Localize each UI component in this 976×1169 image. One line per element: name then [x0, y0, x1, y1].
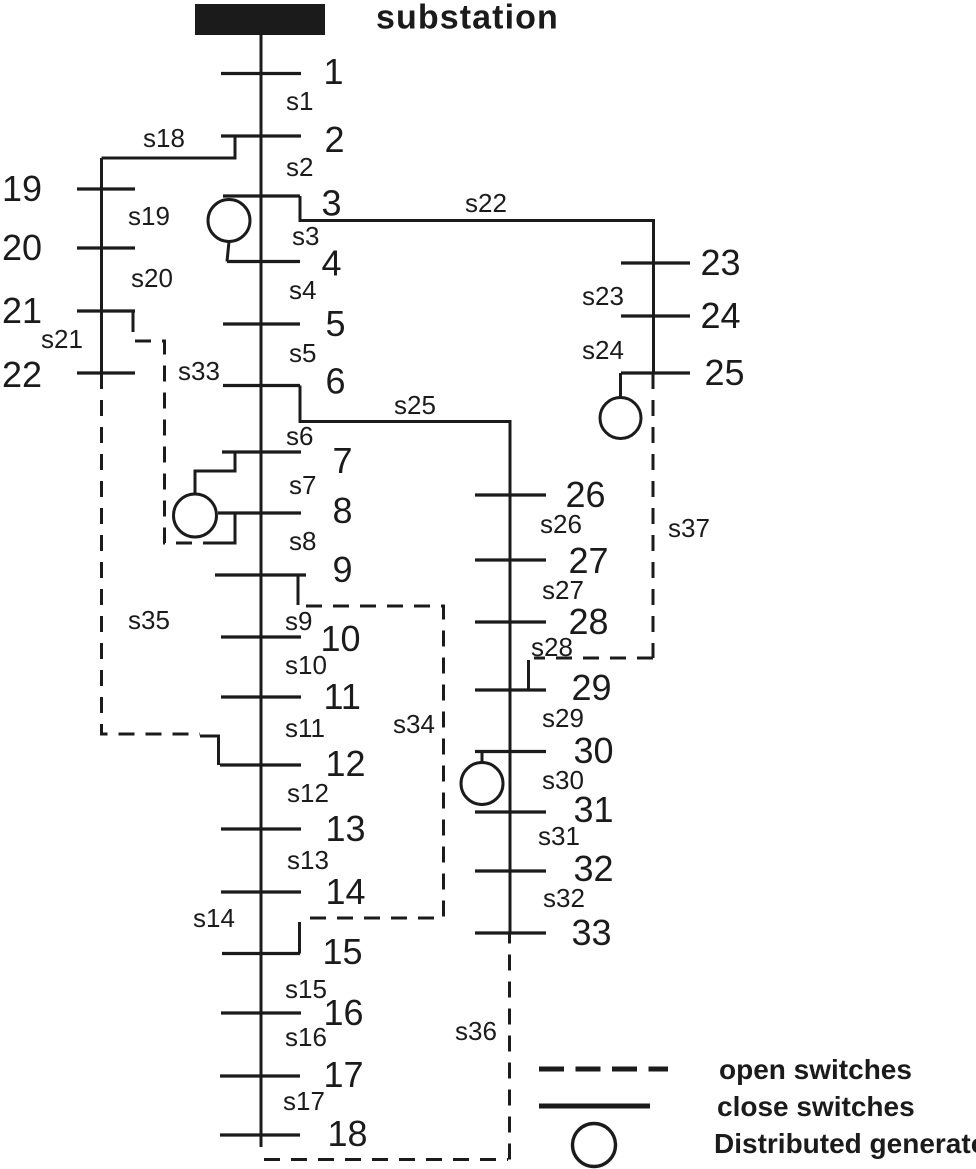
svg-text:s5: s5 [289, 338, 316, 368]
svg-text:11: 11 [324, 676, 361, 717]
svg-text:s24: s24 [582, 335, 624, 365]
svg-text:23: 23 [701, 242, 741, 283]
svg-text:Distributed generator: Distributed generator [714, 1128, 976, 1159]
node bus 12 [220, 763, 301, 766]
node bus 13 [221, 827, 301, 830]
svg-text:7: 7 [333, 440, 353, 481]
node bus 24 [621, 314, 690, 317]
svg-text:9: 9 [333, 549, 353, 590]
svg-text:s17: s17 [283, 1086, 325, 1116]
svg-text:5: 5 [326, 303, 346, 344]
node bus 30 [475, 750, 546, 753]
svg-text:s9: s9 [285, 606, 312, 636]
node bus 6 [223, 384, 300, 387]
svg-text:14: 14 [326, 871, 366, 912]
svg-text:24: 24 [701, 295, 741, 336]
open tie switch s36 (bus 18 to bus 33), dashed [264, 1158, 508, 1161]
node bus 25 [621, 371, 690, 374]
svg-text:4: 4 [322, 243, 342, 284]
node bus 22 [77, 371, 135, 374]
svg-text:s1: s1 [286, 86, 313, 116]
node bus 23 [621, 261, 690, 264]
node bus 29 [475, 688, 546, 691]
node bus 15 [222, 952, 300, 955]
svg-text:close switches: close switches [717, 1091, 915, 1122]
svg-text:s23: s23 [582, 281, 624, 311]
node bus 8 [218, 511, 301, 514]
svg-text:s10: s10 [285, 650, 327, 680]
svg-text:28: 28 [569, 601, 609, 642]
svg-text:29: 29 [572, 667, 612, 708]
svg-text:s36: s36 [455, 1016, 497, 1046]
svg-text:s35: s35 [128, 605, 170, 635]
svg-text:s27: s27 [542, 575, 584, 605]
svg-text:s13: s13 [287, 845, 329, 875]
distributed generator DG3 (at bus 25) [619, 373, 622, 398]
node bus 27 [475, 558, 546, 561]
distributed generator DG2 (at bus 7/8) [195, 452, 235, 494]
node bus 21 [77, 309, 135, 312]
node bus 28 [475, 620, 546, 623]
svg-text:19: 19 [2, 168, 42, 209]
svg-text:s19: s19 [128, 201, 170, 231]
svg-text:s14: s14 [193, 903, 235, 933]
node bus 19 [77, 187, 135, 190]
svg-text:s26: s26 [540, 509, 582, 539]
svg-text:15: 15 [323, 931, 363, 972]
node bus 1 [221, 72, 301, 75]
node bus 14 [221, 890, 301, 893]
node bus 32 [475, 869, 546, 872]
svg-text:s32: s32 [543, 883, 585, 913]
node bus 5 [223, 322, 300, 325]
node bus 17 [220, 1074, 300, 1077]
svg-text:s4: s4 [289, 275, 316, 305]
svg-text:s31: s31 [538, 821, 580, 851]
wire: main feeder vertical [260, 35, 263, 1147]
svg-text:8: 8 [333, 490, 353, 531]
svg-text:17: 17 [324, 1054, 364, 1095]
svg-text:s30: s30 [542, 765, 584, 795]
svg-text:25: 25 [705, 352, 745, 393]
node bus 26 [475, 493, 546, 496]
svg-text:s22: s22 [465, 188, 507, 218]
svg-text:22: 22 [2, 354, 42, 395]
svg-text:s15: s15 [285, 974, 327, 1004]
svg-text:s11: s11 [285, 713, 325, 743]
node bus 20 [77, 246, 135, 249]
legend: close switches sample line [539, 1104, 650, 1109]
node bus 16 [221, 1011, 301, 1014]
open tie switch s34 (bus 9 to bus 15), dashed [297, 575, 300, 605]
svg-text:18: 18 [328, 1113, 368, 1154]
svg-text:s33: s33 [178, 356, 220, 386]
svg-text:s37: s37 [668, 513, 710, 543]
node bus 3 [223, 194, 300, 197]
svg-text:16: 16 [324, 992, 364, 1033]
node bus 18 [220, 1133, 300, 1136]
svg-text:21: 21 [2, 290, 42, 331]
svg-text:s2: s2 [286, 152, 313, 182]
legend: open switches sample line [539, 1067, 668, 1072]
svg-text:3: 3 [322, 183, 342, 224]
svg-text:substation: substation [376, 0, 559, 37]
wire: switch s18 branch from bus 2 [102, 136, 236, 158]
wire: left branch vertical (s19-s21) [100, 158, 103, 373]
svg-text:s34: s34 [393, 709, 435, 739]
svg-text:open switches: open switches [719, 1054, 912, 1085]
svg-text:2: 2 [325, 119, 345, 160]
svg-text:s8: s8 [289, 526, 316, 556]
svg-text:20: 20 [2, 227, 42, 268]
distributed generator DG1 (at bus 3/4) [208, 200, 250, 242]
svg-text:s12: s12 [287, 778, 329, 808]
svg-text:33: 33 [572, 912, 612, 953]
svg-text:12: 12 [326, 743, 366, 784]
svg-text:s6: s6 [286, 421, 313, 451]
node bus 7 [222, 450, 301, 453]
wire: switch s22 branch from bus 3 [300, 196, 654, 373]
node bus 2 [221, 134, 301, 137]
svg-text:s18: s18 [143, 123, 185, 153]
svg-text:s29: s29 [542, 703, 584, 733]
wire: DG1 to bus 4 [227, 242, 229, 262]
svg-text:13: 13 [326, 808, 366, 849]
node bus 10 [221, 635, 301, 638]
node bus 33 [475, 931, 546, 934]
open tie switch s33 (bus 21 to bus 8), dashed [132, 311, 135, 316]
svg-text:s3: s3 [292, 221, 319, 251]
node bus 4 [227, 260, 300, 263]
svg-text:s25: s25 [394, 390, 436, 420]
svg-text:s16: s16 [285, 1022, 327, 1052]
node bus 11 [221, 695, 301, 698]
open tie switch s37 (bus 25 to bus 29), dashed [652, 373, 655, 658]
svg-text:s21: s21 [41, 324, 83, 354]
wire: switch s25 branch from bus 6 [300, 386, 510, 934]
legend: distributed generator symbol [573, 1124, 616, 1167]
svg-text:s20: s20 [131, 263, 173, 293]
node bus 31 [475, 810, 546, 813]
svg-text:1: 1 [324, 51, 344, 92]
svg-text:s7: s7 [289, 470, 316, 500]
distributed generator DG4 (at bus 30) [481, 752, 484, 763]
svg-text:6: 6 [326, 361, 346, 402]
substation [195, 4, 325, 35]
open tie switch s35 (bus 22 to bus 12), dashed [102, 373, 201, 734]
node bus 9 [215, 573, 306, 576]
